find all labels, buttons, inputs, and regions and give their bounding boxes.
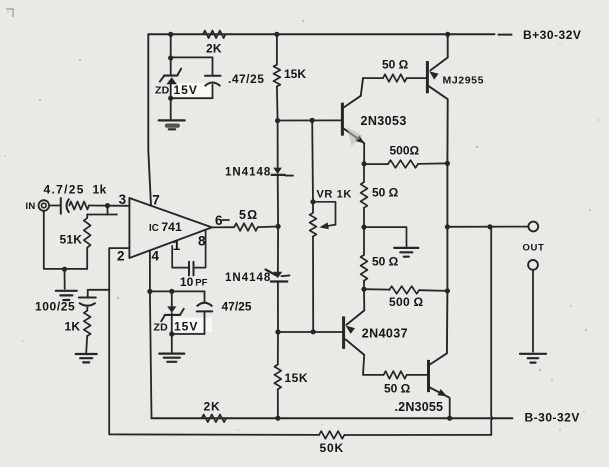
svg-text:2N3053: 2N3053 (361, 114, 407, 128)
svg-text:15K: 15K (284, 67, 306, 81)
svg-text:B+30-32V: B+30-32V (523, 28, 581, 42)
svg-text:2N4037: 2N4037 (362, 327, 408, 341)
svg-text:2: 2 (117, 248, 125, 263)
svg-text:.47/25: .47/25 (228, 72, 264, 86)
svg-text:2K: 2K (204, 400, 221, 414)
svg-text:IC 741: IC 741 (149, 220, 182, 234)
svg-text:ZD: ZD (155, 85, 170, 97)
svg-text:1: 1 (173, 238, 181, 253)
svg-text:1k: 1k (93, 183, 107, 197)
svg-text:100/25: 100/25 (35, 300, 75, 314)
svg-text:15V: 15V (174, 320, 198, 334)
svg-text:50 Ω: 50 Ω (372, 186, 399, 200)
svg-text:50 Ω: 50 Ω (382, 57, 409, 71)
svg-text:7: 7 (152, 193, 160, 208)
svg-text:15K: 15K (285, 371, 309, 385)
svg-text:15V: 15V (174, 83, 198, 97)
svg-text:1N4148: 1N4148 (225, 167, 271, 179)
svg-text:3: 3 (119, 192, 127, 207)
svg-text:4.7/25: 4.7/25 (44, 183, 85, 197)
svg-text:.2N3055: .2N3055 (395, 400, 444, 414)
svg-text:51K: 51K (60, 233, 83, 247)
svg-text:47/25: 47/25 (222, 300, 252, 314)
svg-text:6: 6 (215, 213, 223, 228)
svg-text:50 Ω: 50 Ω (372, 254, 399, 268)
svg-text:1N4148: 1N4148 (225, 272, 271, 284)
svg-text:ZD: ZD (154, 322, 169, 334)
svg-text:50 Ω: 50 Ω (384, 382, 411, 396)
svg-text:MJ2955: MJ2955 (443, 74, 485, 86)
svg-text:IN: IN (26, 201, 36, 212)
svg-text:4: 4 (152, 248, 160, 263)
svg-text:500 Ω: 500 Ω (389, 295, 424, 309)
svg-text:1K: 1K (65, 320, 81, 334)
svg-text:2K: 2K (206, 42, 222, 56)
svg-text:B-30-32V: B-30-32V (525, 411, 580, 425)
svg-text:OUT: OUT (523, 242, 545, 253)
svg-text:VR 1K: VR 1K (317, 189, 352, 201)
svg-text:50K: 50K (320, 441, 344, 455)
svg-text:500Ω: 500Ω (390, 144, 420, 158)
svg-text:8: 8 (198, 233, 206, 248)
svg-text:5Ω: 5Ω (239, 208, 258, 222)
